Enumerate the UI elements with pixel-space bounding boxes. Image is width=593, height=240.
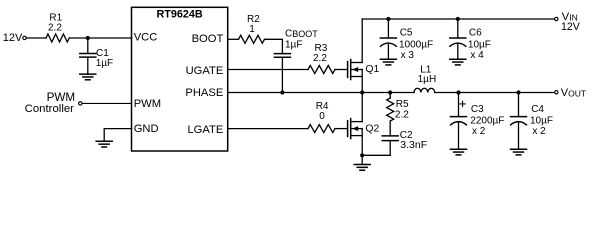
wire R3 to Q1 gate (335, 69, 348, 71)
svg-text:2.2: 2.2 (48, 23, 62, 34)
transistor Q1 (348, 60, 380, 80)
svg-text:R5: R5 (396, 99, 409, 110)
svg-text:12V: 12V (3, 32, 23, 44)
wire R4 to Q2 gate (335, 128, 348, 130)
wire CBOOT to PHASE net (281, 57, 283, 92)
wire Q2 source to ground (361, 155, 363, 164)
resistor R4 (308, 101, 335, 132)
wire PWM terminal to PWM pin (82, 102, 131, 104)
capacitor C5 (380, 19, 433, 61)
svg-text:x 2: x 2 (472, 126, 486, 137)
svg-text:C3: C3 (471, 104, 484, 115)
svg-text:3.3nF: 3.3nF (400, 139, 427, 151)
node junction Q2 source / C2 return (360, 153, 364, 157)
resistor R5 (387, 93, 410, 121)
wire Q2 source down (361, 129, 363, 156)
node junction C4/VOUT (516, 90, 520, 94)
svg-text:x 2: x 2 (532, 126, 546, 137)
node junction CBOOT/PHASE (280, 90, 284, 94)
node junction R5/PHASE (388, 90, 392, 94)
svg-text:1µF: 1µF (96, 58, 113, 69)
svg-text:GND: GND (134, 123, 159, 135)
wire LGATE pin to R4 (228, 128, 308, 130)
ground GND pin (96, 141, 112, 147)
resistor R3 (308, 43, 335, 74)
svg-text:2.2: 2.2 (395, 110, 409, 121)
wire R1 to VCC pin (69, 37, 131, 39)
svg-text:PHASE: PHASE (185, 87, 223, 99)
svg-text:VCC: VCC (134, 32, 158, 44)
svg-text:0: 0 (319, 111, 325, 122)
inductor L1 (414, 65, 436, 93)
svg-text:10µF: 10µF (530, 116, 553, 127)
node junction C6/VIN (456, 17, 460, 21)
wire Q1 source to PHASE (361, 70, 363, 93)
node junction VCC/C1 (86, 36, 90, 40)
svg-text:C6: C6 (469, 27, 482, 38)
node VIN output terminal (555, 11, 581, 33)
svg-text:1000µF: 1000µF (399, 39, 433, 50)
wire Q1 drain to VIN rail (361, 19, 363, 63)
svg-text:12V: 12V (561, 21, 581, 33)
node 12V input terminal (3, 32, 26, 44)
svg-text:2200µF: 2200µF (470, 116, 504, 127)
wire R5 to C2 (389, 121, 391, 136)
ground C6 (450, 59, 466, 65)
wire UGATE pin to R3 (228, 69, 308, 71)
wire PHASE pin to L1 (228, 92, 414, 94)
wire GND pin stub (104, 129, 131, 142)
svg-text:2.2: 2.2 (313, 53, 327, 64)
transistor Q2 (348, 119, 380, 139)
svg-text:x 3: x 3 (401, 50, 415, 61)
node junction C3/VOUT (456, 90, 460, 94)
svg-text:BOOT: BOOT (192, 33, 224, 45)
capacitor C4 (511, 93, 554, 150)
ground Q2 source (354, 165, 370, 171)
svg-text:RT9624B: RT9624B (156, 9, 202, 21)
node PWM Controller input terminal (25, 91, 82, 115)
node VOUT output terminal (555, 87, 586, 99)
node junction C5/VIN (386, 17, 390, 21)
wire L1 to VOUT terminal (435, 92, 555, 94)
resistor R2 (239, 14, 265, 43)
ground C3 (451, 149, 467, 155)
ground C4 (511, 149, 527, 155)
svg-text:1µH: 1µH (418, 74, 437, 85)
svg-text:x 4: x 4 (470, 50, 484, 61)
svg-text:Controller: Controller (25, 103, 75, 115)
svg-text:10µF: 10µF (468, 39, 491, 50)
capacitor C3 (451, 93, 505, 150)
svg-text:1: 1 (249, 24, 255, 35)
svg-text:Q1: Q1 (365, 64, 379, 75)
wire Q2 drain to PHASE (361, 93, 363, 122)
svg-text:UGATE: UGATE (186, 65, 224, 77)
capacitor C1 (80, 38, 113, 74)
wire BOOT pin to R2 (228, 38, 239, 40)
svg-text:PWM: PWM (134, 98, 161, 110)
op-amp U1 RT9624B driver IC body (132, 7, 228, 151)
resistor R1 (46, 12, 69, 42)
node junction Q1 source / PHASE (360, 90, 364, 94)
ground C1 (80, 74, 96, 80)
svg-text:Q2: Q2 (365, 123, 379, 134)
capacitor CBOOT (274, 28, 318, 57)
svg-text:CBOOT: CBOOT (285, 28, 318, 39)
ground C5 (380, 59, 396, 65)
svg-text:1µF: 1µF (285, 40, 302, 51)
capacitor C6 (450, 19, 491, 61)
wire C2 return to Q2 source (362, 154, 390, 156)
wire VIN rail (362, 18, 554, 20)
svg-text:C5: C5 (400, 28, 413, 39)
svg-text:VOUT: VOUT (561, 87, 586, 99)
svg-text:C4: C4 (531, 104, 544, 115)
wire terminal to R1 (27, 37, 47, 39)
wire R2 to CBOOT (265, 39, 283, 53)
capacitor C2 (382, 130, 427, 155)
svg-text:LGATE: LGATE (187, 124, 223, 136)
